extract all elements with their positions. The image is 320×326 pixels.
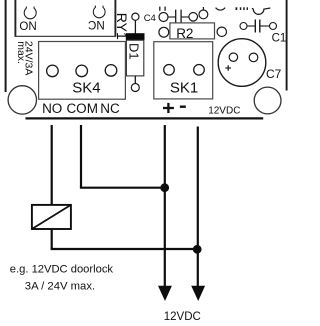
svg-text:12VDC: 12VDC [208,106,240,117]
svg-text:e.g. 12VDC doorlock: e.g. 12VDC doorlock [10,263,114,275]
svg-text:3A / 24V max.: 3A / 24V max. [25,280,95,292]
svg-text:C1: C1 [272,33,287,45]
svg-text:12VDC: 12VDC [164,311,201,323]
svg-text:D1: D1 [127,43,142,60]
svg-text:C7: C7 [266,67,282,81]
svg-text:max.: max. [15,41,27,64]
svg-text:NC: NC [100,101,120,116]
svg-text:COM: COM [66,101,98,116]
svg-text:NC: NC [88,18,105,31]
svg-text:C4: C4 [144,13,156,24]
svg-text:NO: NO [19,19,36,32]
svg-text:R2: R2 [176,26,193,41]
svg-text:NO: NO [42,101,62,116]
svg-text:SK1: SK1 [170,80,198,97]
svg-text:SK4: SK4 [72,80,100,97]
